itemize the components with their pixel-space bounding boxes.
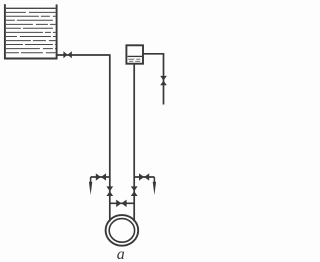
valve V4 (right branch) bbox=[139, 173, 149, 180]
tank T1 left wall bbox=[4, 4, 6, 59]
valve V2 (right drain, vertical) bbox=[160, 76, 167, 85]
tank T1 water hatching bbox=[6, 8, 56, 52]
wire tank outlet to pipe A bbox=[57, 54, 110, 56]
wire right branch bbox=[134, 176, 154, 178]
wire jumper between pipes bbox=[110, 202, 134, 204]
header box B1 bbox=[126, 45, 143, 63]
coil ring outer bbox=[106, 215, 139, 246]
wire header box outlet right bbox=[143, 54, 164, 105]
valve V6 (pipe B, vertical) bbox=[131, 186, 138, 196]
valve V5 (pipe A, vertical) bbox=[106, 186, 113, 196]
wire pipe B vertical bbox=[133, 64, 135, 222]
arrow right drain bbox=[153, 177, 156, 195]
svg-text:а: а bbox=[117, 246, 125, 262]
valve V1 (tank outlet) bbox=[63, 51, 71, 58]
wire left branch bbox=[91, 176, 110, 178]
wire pipe A vertical bbox=[109, 54, 111, 221]
header box B1 liquid level bbox=[128, 56, 142, 61]
valve V7 (jumper) bbox=[116, 200, 126, 208]
arrow left drain bbox=[89, 177, 92, 195]
coil ring inner bbox=[109, 219, 134, 243]
tank T1 bottom wall bbox=[4, 58, 58, 60]
valve V3 (left branch) bbox=[96, 173, 106, 180]
tank T1 right wall bbox=[56, 4, 58, 59]
